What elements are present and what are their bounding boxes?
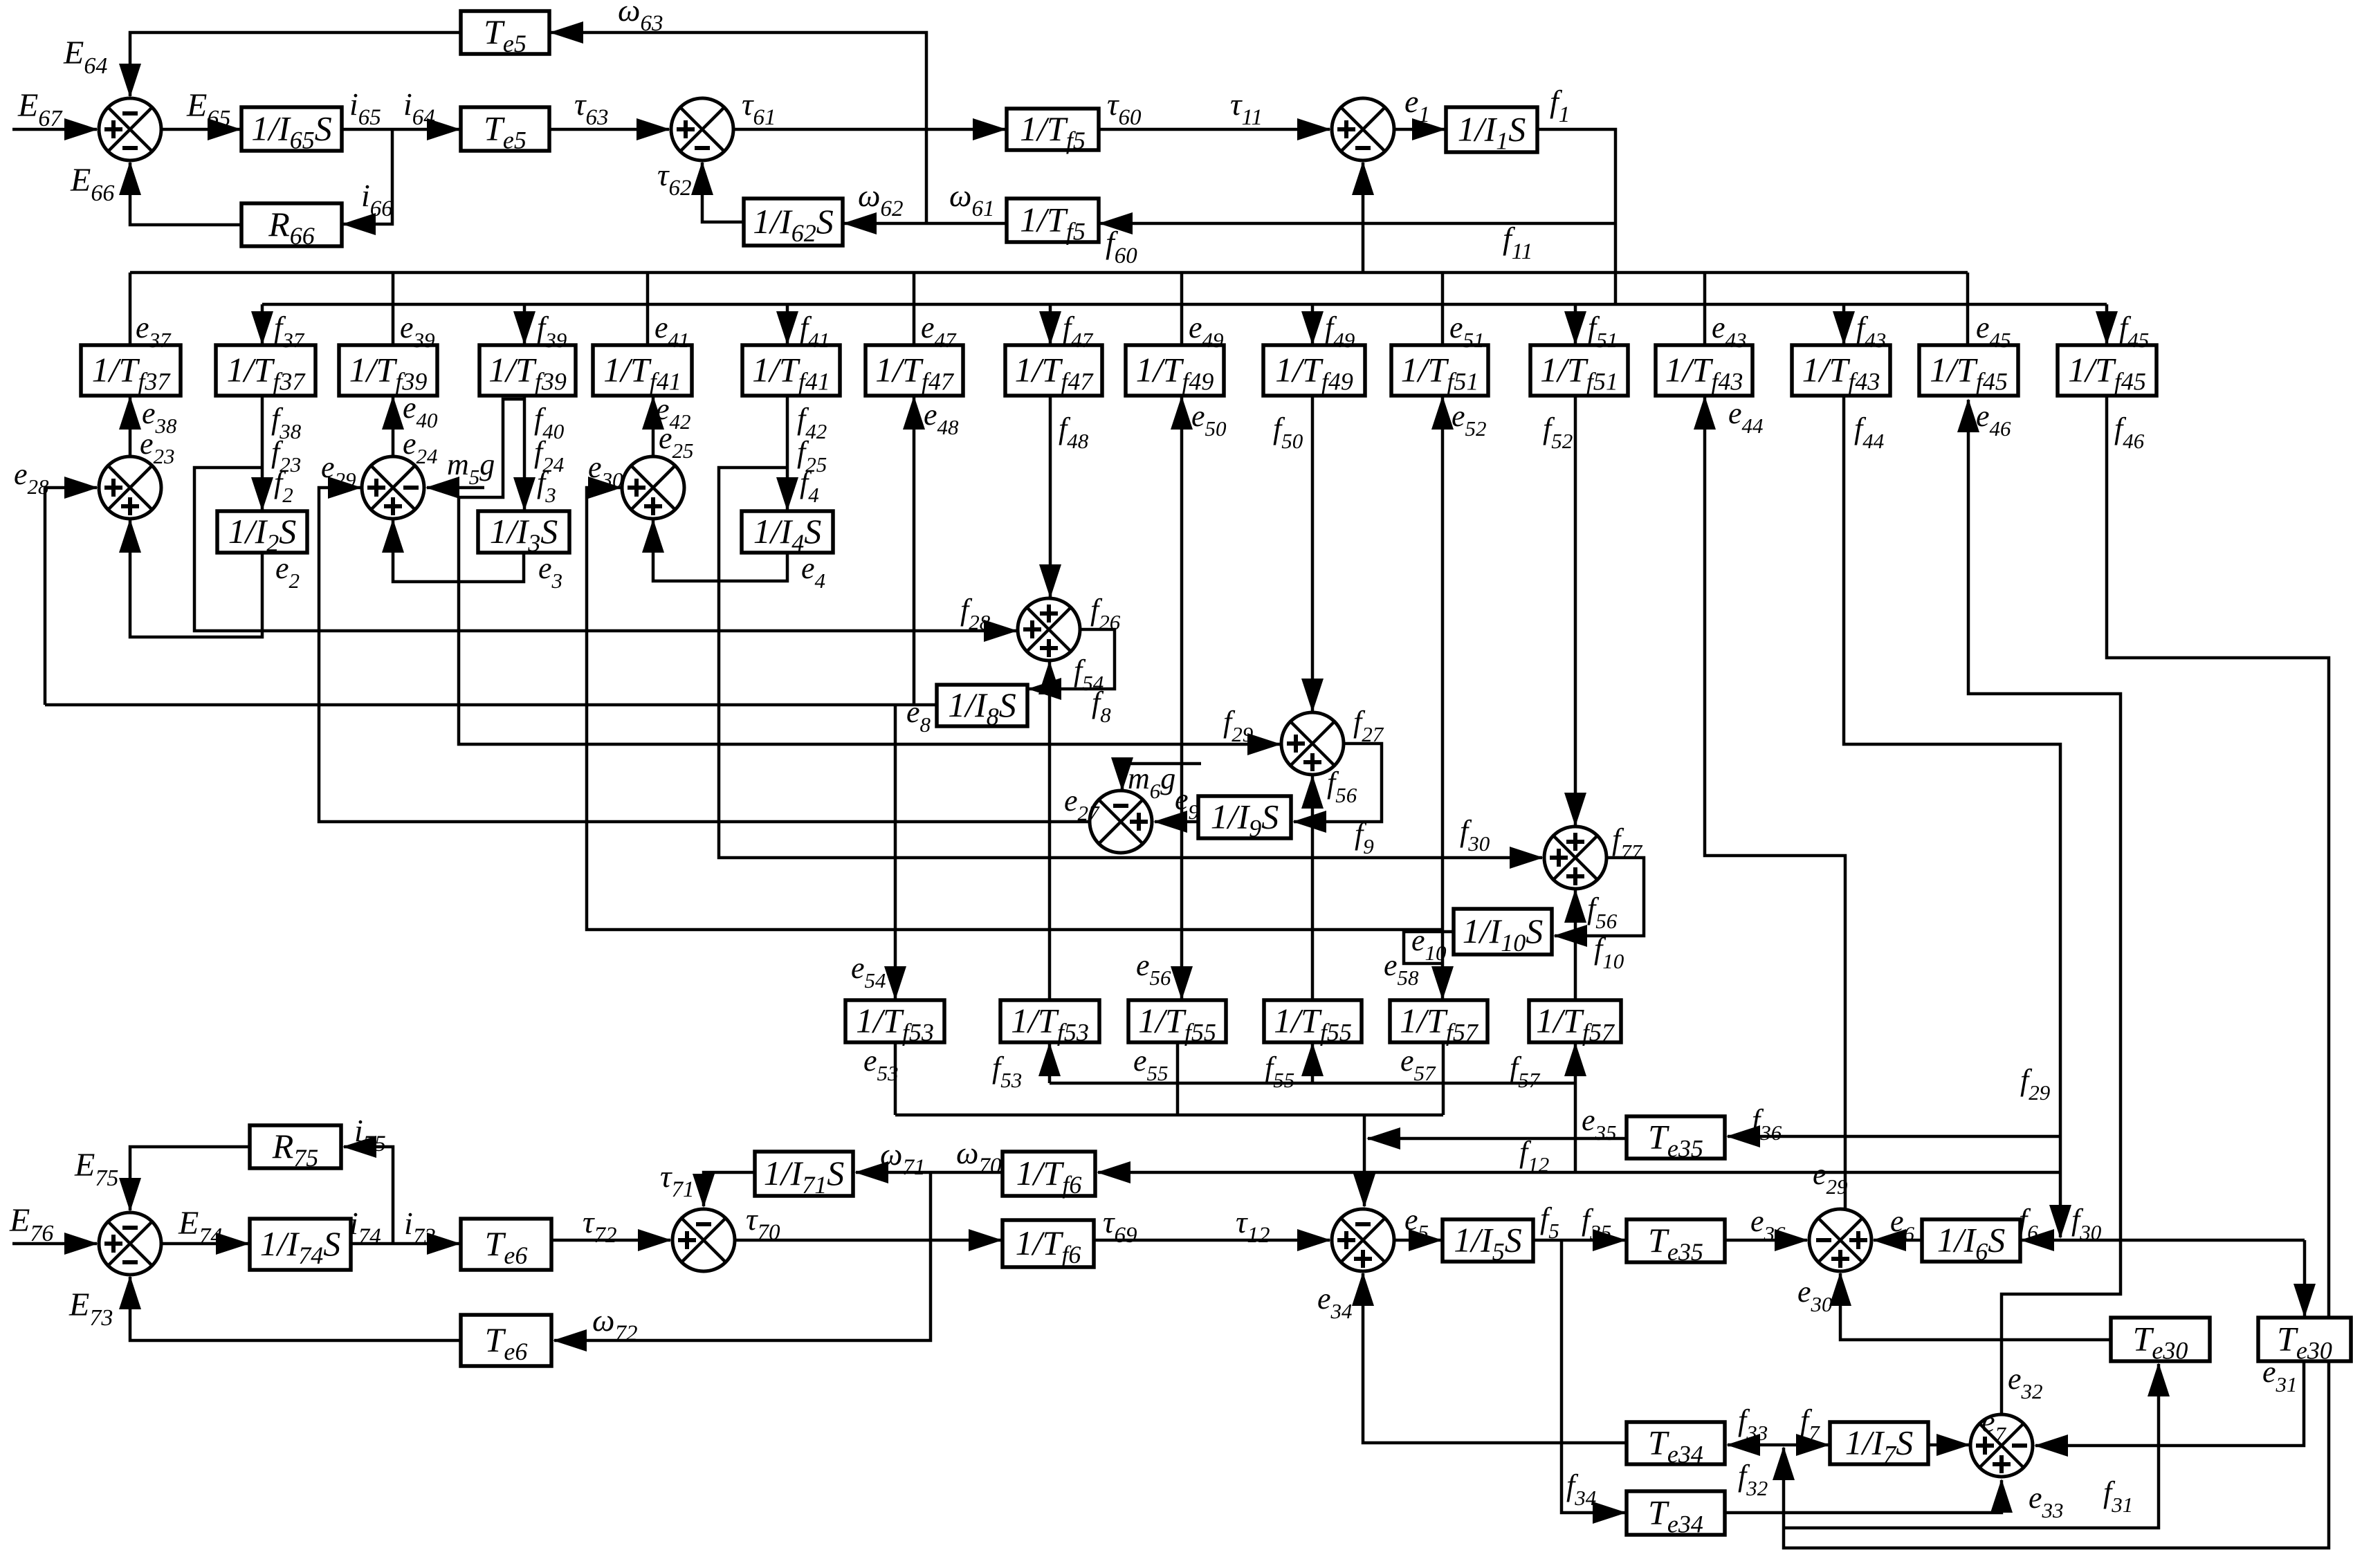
label e43 [1712, 311, 1747, 352]
wire e collect into J11 [1363, 1115, 1366, 1206]
label f11 [1503, 221, 1532, 264]
wire e46 e32 route [1968, 400, 2121, 1413]
wire f5 f35 [1533, 1239, 1625, 1242]
label e58 [1384, 948, 1419, 990]
svg-text:1/I9S: 1/I9S [1211, 797, 1279, 842]
label τ70 [746, 1201, 780, 1245]
block Tf39b [479, 345, 576, 396]
label i66 [361, 178, 393, 221]
label e37 [136, 311, 172, 352]
label E64 [63, 35, 107, 79]
block I65S [241, 107, 342, 154]
label i65 [349, 86, 381, 130]
wire e2 loop [130, 520, 262, 637]
summing junction J5 e24 [362, 456, 424, 519]
label e34 [1317, 1282, 1353, 1323]
label e10 [1411, 923, 1447, 965]
summing junction J6 e25 [622, 456, 684, 519]
svg-text:1/I3S: 1/I3S [490, 512, 558, 557]
block Te5b [461, 107, 549, 154]
wire 1/I71S to J12 (tau71) [704, 1172, 755, 1206]
label e29 [321, 450, 356, 492]
wire f48 column [1049, 396, 1052, 597]
label e36 [1750, 1204, 1786, 1246]
label f41 [800, 311, 830, 352]
wire e3 loop [393, 520, 524, 582]
block Te6b [461, 1315, 551, 1366]
wire f49 drop [1311, 304, 1315, 344]
label f1 [1550, 84, 1570, 127]
block Tf37b [216, 345, 315, 396]
label τ69 [1103, 1204, 1137, 1248]
label f44 [1854, 412, 1884, 453]
label e56 [1136, 948, 1171, 990]
label e23 [140, 427, 175, 468]
wire Te5 to J1 (E64) [130, 33, 461, 96]
wire e50 e56 column up [1180, 397, 1184, 699]
wire E73 line [130, 1277, 461, 1340]
label f7 [1800, 1403, 1820, 1445]
block I5S [1443, 1219, 1533, 1266]
wire m5g stub [427, 486, 484, 490]
label m6g [1128, 762, 1175, 803]
wire f57 column mid [1574, 936, 1577, 1000]
wire e51 drop [1441, 273, 1445, 345]
label ω72 [592, 1302, 637, 1346]
label f30 [2071, 1203, 2102, 1244]
label E74 [178, 1205, 222, 1249]
wire f33 arrow [1728, 1444, 1783, 1447]
wire e55 column [1176, 1044, 1180, 1115]
block Tf53b [1000, 1000, 1099, 1046]
wire J5 up e40 [392, 397, 395, 456]
label f49 [1325, 311, 1355, 352]
label e54 [851, 951, 886, 993]
wire f60 into 1/Tf5 [1100, 222, 1615, 225]
block I6S [1922, 1219, 2020, 1266]
label e4 [801, 551, 825, 593]
block Tf37a [81, 345, 181, 396]
label e55 [1133, 1044, 1169, 1085]
label e9 [1175, 782, 1199, 824]
label e30 [588, 450, 623, 492]
label f39 [537, 311, 567, 352]
label f54 [1074, 654, 1104, 695]
block I71S [755, 1152, 853, 1199]
wire bus B [262, 303, 2107, 306]
block Te35b [1627, 1219, 1725, 1266]
label e42 [656, 392, 691, 434]
wire tau69 tau12 into J11 [1094, 1239, 1330, 1242]
block Tf49b [1263, 345, 1365, 396]
wire f42 f25 f4 column [786, 396, 789, 510]
label E65 [186, 87, 230, 131]
block I8S [937, 685, 1027, 730]
block Tf45b [2058, 345, 2157, 396]
wire bus A [130, 271, 1968, 275]
wire 1/I65S to Te5 (i65,i64) [342, 128, 459, 131]
summing junction J1 E65 [99, 98, 161, 160]
label e30 [1797, 1275, 1833, 1316]
wire f28 branch [194, 468, 1016, 631]
block I74S [250, 1219, 351, 1270]
label e24 [403, 427, 438, 468]
label ω62 [858, 178, 903, 221]
wire f30 corner to Te30 [2303, 1240, 2307, 1316]
label e49 [1189, 311, 1224, 352]
label f10 [1594, 932, 1624, 973]
label ω61 [949, 178, 994, 221]
wire e52 e58 column down [1441, 761, 1445, 999]
wire e45 drop [1966, 273, 1970, 345]
label e7 [1981, 1405, 2007, 1446]
label τ72 [583, 1204, 616, 1248]
block Tf47a [866, 345, 963, 396]
label f27 [1353, 705, 1384, 746]
wire f29 branch [459, 399, 1280, 744]
wire e47 drop [913, 273, 916, 345]
label f28 [960, 593, 991, 634]
label ω70 [956, 1135, 1002, 1179]
block Te35a [1627, 1116, 1725, 1163]
label e48 [924, 398, 959, 439]
summing junction J10 f77 [1544, 827, 1606, 889]
label e28 [14, 457, 49, 499]
label f26 [1090, 593, 1121, 634]
summing junction J12 tau70 [672, 1209, 735, 1271]
wire 1/I62S to J2 (tau62) [702, 163, 744, 222]
label f29 [1223, 705, 1253, 746]
wire e53 column [894, 1044, 897, 1115]
svg-text:1/I7S: 1/I7S [1845, 1423, 1914, 1468]
wire J6 up e42 [652, 397, 655, 456]
wire e10 jog [1404, 932, 1454, 963]
label f56 [1327, 766, 1357, 807]
label f38 [271, 402, 302, 443]
block I4S [742, 511, 833, 557]
label f36 [1752, 1103, 1782, 1145]
label e52 [1452, 399, 1487, 441]
block Te30b [2258, 1318, 2351, 1365]
wire f12 line [1098, 1171, 2060, 1174]
label e3 [538, 551, 562, 593]
block Tf51b [1530, 345, 1628, 396]
wire f47 drop [1049, 304, 1052, 344]
block Tf47b [1005, 345, 1102, 396]
label e38 [142, 396, 177, 438]
block Tf39a [339, 345, 437, 396]
label e2 [275, 551, 300, 593]
label f4 [800, 465, 819, 507]
block Te34b [1627, 1491, 1725, 1538]
block I3S [478, 511, 569, 557]
wire f50 column [1311, 396, 1315, 711]
wire i75 branch [344, 1147, 393, 1244]
label e5 [1404, 1203, 1429, 1244]
wire m6g overline [1119, 762, 1201, 766]
label e50 [1191, 399, 1227, 441]
label τ61 [742, 86, 776, 130]
label f2 [274, 465, 293, 507]
wire f40 f24 f3 column [523, 396, 527, 510]
label τ12 [1236, 1204, 1270, 1248]
wire f36 line [1728, 1135, 2060, 1138]
wire f56 up [1311, 776, 1315, 1000]
block R75 [250, 1125, 341, 1172]
svg-text:1/I5S: 1/I5S [1454, 1221, 1522, 1266]
label f52 [1543, 412, 1573, 453]
wire e37 drop [129, 273, 132, 345]
label e31 [2262, 1355, 2298, 1396]
wire J11 to 1/I5S (e5) [1395, 1239, 1441, 1242]
label f56 [1587, 892, 1618, 933]
wire J3 to 1/I1S (e1) [1395, 128, 1445, 131]
label f50 [1273, 412, 1303, 453]
label i64 [403, 86, 435, 130]
wire E67 input [12, 128, 97, 131]
block Tf5a [1007, 109, 1099, 154]
summing junction J13 E74 [99, 1212, 161, 1275]
wire f38 f23 f2 column [261, 396, 264, 510]
wire R75 to J13 (E75) [130, 1147, 250, 1210]
block Tf49a [1126, 345, 1224, 396]
block I62S [744, 199, 843, 247]
label f6 [2019, 1203, 2038, 1244]
label f35 [1582, 1203, 1611, 1244]
label e29 [1813, 1157, 1848, 1199]
label f25 [797, 435, 827, 477]
wire e43 drop [1703, 273, 1707, 345]
label f55 [1265, 1051, 1294, 1092]
wire omega61 omega62 into 1/I62S [844, 222, 1005, 225]
label f46 [2114, 412, 2145, 453]
wire f30 branch [719, 468, 1542, 858]
label e40 [403, 391, 438, 432]
wire e44 e29 route [1705, 397, 1845, 1208]
wire f39 drop [523, 304, 527, 344]
block I2S [217, 511, 307, 557]
block Tf51a [1391, 345, 1488, 396]
wire 1/I6S to J14 (e6) [1874, 1239, 1922, 1242]
block Tf6b [1002, 1220, 1094, 1269]
label e33 [2029, 1481, 2064, 1522]
wire e collect line [895, 1114, 1443, 1117]
wire E76 input [12, 1242, 97, 1246]
label e46 [1976, 399, 2011, 441]
wire e41 drop [646, 273, 650, 345]
wire f53 up arrow [1048, 1044, 1052, 1083]
svg-text:1/I8S: 1/I8S [948, 685, 1016, 730]
wire e54 column [894, 705, 897, 999]
wire e27 e29 feedback [319, 488, 1089, 822]
wire e4 loop [653, 520, 787, 581]
label ω71 [880, 1136, 925, 1180]
wire f43 drop [1842, 304, 1846, 344]
wire J2 to 1/Tf5 (tau61) [734, 128, 1005, 131]
summing junction J2 tau61 [671, 98, 733, 160]
wire e49 drop [1180, 273, 1184, 345]
label e44 [1728, 396, 1764, 438]
label f47 [1063, 311, 1094, 352]
wire f26 loop [1029, 629, 1115, 689]
wire f56b up [1574, 890, 1577, 936]
wire e57 column [1442, 1044, 1445, 1115]
block Tf41a [593, 345, 692, 396]
label E75 [74, 1147, 118, 1191]
svg-text:1/I1S: 1/I1S [1458, 110, 1526, 155]
wire e7 into J15 [1928, 1444, 1969, 1447]
label e1 [1404, 84, 1430, 127]
wire f54 up [1048, 662, 1052, 689]
label f51 [1588, 311, 1618, 352]
wire f31 line [1784, 1364, 2159, 1528]
block Tf53a [845, 1000, 944, 1046]
label e53 [863, 1044, 899, 1085]
wire e30 e54 line [587, 488, 1443, 930]
svg-text:1/I4S: 1/I4S [753, 512, 822, 557]
wire f41 drop [786, 304, 789, 344]
wire e33 line [1725, 1480, 2002, 1513]
label i75 [354, 1113, 386, 1156]
label f23 [271, 435, 301, 477]
wire e9 into J9 [1155, 820, 1198, 824]
label f57 [1510, 1051, 1541, 1092]
label f37 [274, 311, 305, 352]
summing junction J9 e27 [1090, 791, 1152, 853]
label e25 [659, 421, 694, 463]
wire 1/Tf5 to J3 (tau60,tau11) [1099, 128, 1330, 131]
block I10S [1454, 909, 1552, 957]
label e45 [1976, 311, 2011, 352]
label E66 [70, 162, 114, 206]
wire f1 feedback [1537, 129, 1615, 304]
wire e28 feedback [45, 488, 97, 705]
label e32 [2008, 1362, 2043, 1403]
block Te34a [1627, 1422, 1725, 1468]
label f42 [797, 402, 827, 443]
block Te6a [461, 1219, 551, 1270]
summing junction J3 e1 [1332, 98, 1394, 160]
wire f52 column [1574, 396, 1577, 825]
label E67 [17, 87, 63, 131]
wire R66 to J1 (E66) [130, 163, 241, 225]
label f77 [1612, 822, 1643, 864]
svg-text:1/I6S: 1/I6S [1937, 1221, 2006, 1266]
label m5g [447, 448, 495, 489]
label e51 [1449, 311, 1485, 352]
label f33 [1738, 1403, 1768, 1445]
block I7S [1830, 1422, 1928, 1468]
block Tf55a [1128, 1000, 1226, 1046]
wire f51 drop [1574, 304, 1577, 344]
block Te5a [461, 11, 549, 57]
label f48 [1059, 412, 1089, 453]
label e8 [906, 695, 931, 737]
wire i66 branch [343, 129, 392, 224]
label e47 [921, 311, 957, 352]
wire f57 up arrow [1574, 1044, 1577, 1083]
label e41 [654, 311, 690, 352]
block Tf43b [1792, 345, 1890, 396]
wire omega63 into Te5 [551, 33, 926, 223]
wire J12 to 1/Tf6 (tau70) [735, 1239, 1001, 1242]
label τ71 [660, 1159, 694, 1202]
label E76 [9, 1202, 53, 1246]
block R66 [241, 203, 342, 250]
block Tf6a [1002, 1152, 1095, 1199]
summing junction J4 e23 [99, 456, 161, 519]
svg-text:1/I2S: 1/I2S [228, 512, 297, 557]
label τ62 [657, 157, 691, 201]
block Tf43a [1656, 345, 1752, 396]
label e57 [1400, 1044, 1436, 1085]
wire 1/I74S to Te6 (i74,i73) [351, 1242, 459, 1246]
wire f34 branch [1562, 1240, 1625, 1513]
block I1S [1446, 107, 1537, 155]
label f45 [2119, 311, 2149, 352]
label τ60 [1107, 86, 1142, 130]
wire e48 column [913, 397, 916, 705]
wire J13 to 1/I74S (E74) [162, 1242, 248, 1246]
wire f46 f32 route [1784, 396, 2329, 1548]
wire omega72 line [554, 1172, 931, 1340]
summing junction J7 f26 [1018, 598, 1080, 661]
wire f27 loop [1294, 744, 1382, 822]
wire e8 line [45, 703, 937, 707]
label f12 [1519, 1135, 1549, 1177]
label e35 [1582, 1103, 1617, 1145]
block Tf45a [1919, 345, 2018, 396]
label i74 [349, 1206, 381, 1249]
block Te30a [2111, 1318, 2210, 1365]
wire e30 line [1840, 1273, 2111, 1340]
label τ63 [574, 86, 608, 130]
label τ11 [1230, 86, 1263, 130]
wire Te5 to J2 (tau63) [549, 128, 669, 131]
label f30 [1460, 814, 1490, 856]
wire f6 line [2022, 1239, 2305, 1242]
wire J4 up e38 [129, 397, 132, 456]
label E73 [68, 1286, 113, 1331]
wire f77 loop [1555, 858, 1644, 936]
label f8 [1092, 685, 1111, 727]
label f31 [2103, 1475, 2133, 1517]
wire e50 e56 column down [1180, 699, 1184, 999]
wire f55 up arrow [1311, 1044, 1315, 1083]
wire f44 f29 route [1844, 396, 2060, 1237]
wire f57 lower [1574, 1083, 1577, 1172]
label f40 [534, 402, 565, 443]
block Tf57a [1390, 1000, 1487, 1046]
label i73 [404, 1206, 436, 1249]
block I9S [1198, 796, 1291, 842]
label f53 [992, 1051, 1022, 1092]
label f60 [1106, 225, 1137, 268]
label f24 [534, 435, 564, 477]
block Tf57b [1529, 1000, 1621, 1046]
wire f11 into J3 [1362, 163, 1365, 273]
wire f7 arrow [1783, 1444, 1829, 1447]
wire e35 line [1368, 1137, 1627, 1141]
wire e34 line [1363, 1273, 1627, 1443]
summing junction J15 e7 [1970, 1414, 2033, 1477]
label f32 [1738, 1459, 1768, 1500]
summing junction J11 e5 [1332, 1209, 1394, 1271]
block Tf55b [1264, 1000, 1362, 1046]
label ω63 [618, 0, 663, 36]
label f29 [2020, 1063, 2050, 1105]
wire e39 drop [392, 273, 395, 345]
